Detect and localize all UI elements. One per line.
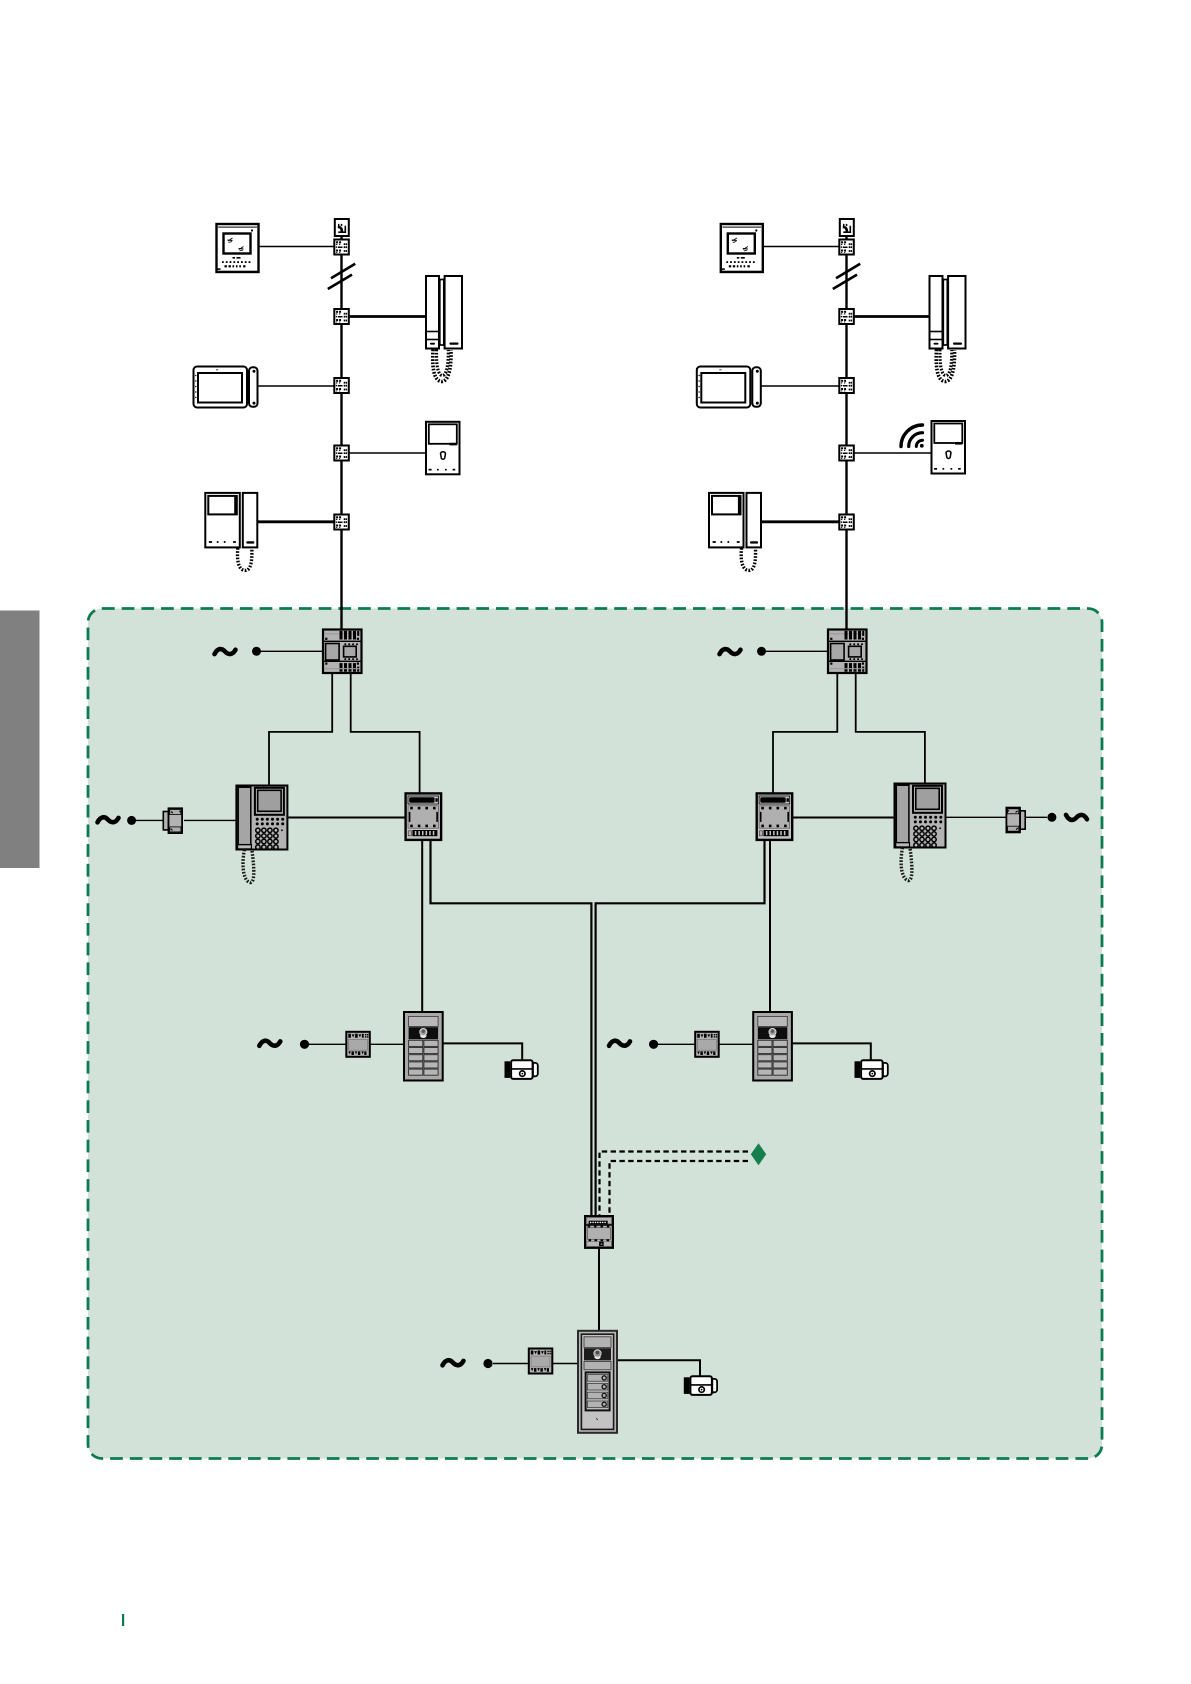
riser terminator R [840, 219, 854, 236]
wire junction to main panel [598, 1247, 600, 1332]
wire left riser [340, 234, 342, 631]
wire entrance panel L to lock L [442, 1043, 522, 1061]
wide monitor L [194, 367, 258, 408]
wire wide monitor R to distributor [762, 385, 841, 387]
riser terminator L [335, 219, 349, 236]
entrance panel R [753, 1012, 792, 1081]
floor distributor L5 [334, 515, 349, 530]
wire psu small R to entrance panel R [718, 1043, 754, 1045]
option diamond [751, 1143, 766, 1165]
section tab [0, 611, 40, 869]
mains symbol entrance L [259, 1041, 280, 1046]
small monitor R [932, 421, 966, 474]
floor distributor L3 [334, 378, 349, 393]
wire wide monitor L to distributor [257, 385, 335, 387]
floor distributor R4 [839, 446, 854, 461]
wire switchboard L to relay L [287, 817, 406, 819]
wire small monitor L to distributor [348, 452, 427, 454]
node switchboard L [127, 816, 136, 825]
wire psu small bottom to main panel [552, 1363, 580, 1365]
junction box [585, 1216, 613, 1248]
transformer entrance R [695, 1032, 719, 1057]
relay distributor R [757, 793, 793, 840]
branch tee L [163, 808, 182, 833]
video monitor L1 [217, 224, 259, 272]
floor distributor R3 [839, 378, 854, 393]
video monitor R1 [721, 224, 763, 272]
wide monitor R [697, 367, 761, 408]
wire dashed option lower [610, 1161, 749, 1217]
wire right riser [845, 234, 847, 631]
mains symbol entrance R [609, 1041, 630, 1046]
wifi symbol [901, 425, 924, 448]
wire monitor R1 to distributor [762, 246, 841, 248]
wire dashed option upper [600, 1152, 749, 1218]
monitor with handset R [709, 493, 761, 571]
riser power supply L [323, 630, 362, 674]
transformer main panel [529, 1349, 553, 1374]
wire mains to PSU right [764, 650, 829, 652]
door lock main [684, 1376, 717, 1395]
floor distributor R2 [839, 309, 854, 324]
porter switchboard L [236, 786, 287, 883]
wire mains to psu small L [309, 1043, 347, 1045]
transformer entrance L [346, 1032, 370, 1057]
wire entrance panel R to lock R [791, 1043, 871, 1061]
floor distributor L2 [334, 309, 349, 324]
wire monitor-handset R to distributor [762, 520, 841, 523]
wire phone L to distributor [348, 315, 427, 318]
intercom phone R [930, 276, 966, 382]
wire PSU left out2 to relay [351, 672, 420, 794]
floor distributor R5 [839, 515, 854, 530]
riser zone shaded area [88, 609, 1102, 1459]
wire PSU left out1 to switchboard [269, 672, 332, 786]
riser break R [833, 264, 860, 289]
wire tee left to switchboard [184, 819, 237, 821]
wire PSU right out1 to relay [773, 672, 837, 794]
wire monitor-handset L to distributor [257, 520, 335, 523]
intercom phone L [426, 276, 462, 382]
mains symbol PSU R [720, 649, 741, 654]
branch tee R [1006, 808, 1025, 833]
node entrance L [300, 1040, 309, 1049]
wire mains to tee left [134, 819, 164, 821]
relay distributor L [406, 793, 442, 840]
wire relay R to entrance panel R [769, 839, 771, 1013]
riser power supply R [828, 630, 867, 674]
entrance panel L [404, 1012, 443, 1081]
floor distributor R1 [839, 240, 854, 255]
main entrance panel [578, 1331, 617, 1433]
monitor with handset L [205, 493, 257, 571]
floor distributor L4 [334, 446, 349, 461]
wire relay L to trunk [431, 839, 592, 1217]
node PSU L [252, 647, 261, 656]
node main panel [483, 1359, 492, 1368]
mains symbol PSU L [215, 649, 236, 654]
footer tick [122, 1614, 124, 1626]
wire relay R to trunk [596, 839, 765, 1217]
node entrance R [649, 1040, 658, 1049]
small monitor L [426, 422, 460, 475]
wire monitor L1 to distributor [257, 246, 335, 248]
wire PSU right out2 to switchboard [856, 672, 925, 783]
node PSU R [757, 647, 766, 656]
wire small monitor R to distributor [853, 452, 932, 454]
wire switchboard R to tee R [945, 816, 1007, 818]
wire phone R to distributor [853, 315, 931, 318]
door lock R [855, 1060, 888, 1079]
wire mains to PSU left [259, 650, 324, 652]
wire psu small L to entrance panel L [369, 1043, 405, 1045]
mains symbol switchboard L [98, 817, 119, 822]
bus symbol R [1066, 815, 1087, 820]
porter switchboard R [895, 784, 946, 881]
node switchboard R [1047, 813, 1056, 822]
wire mains to psu small R [658, 1043, 696, 1045]
riser break L [328, 264, 355, 289]
floor distributor L1 [334, 240, 349, 255]
wire relay R to switchboard R [790, 817, 895, 819]
wire relay L to entrance panel L [421, 839, 423, 1013]
door lock L [505, 1060, 538, 1079]
wire main panel to lock bottom [616, 1360, 700, 1377]
mains symbol main panel [443, 1360, 464, 1365]
wire mains to psu small bottom [493, 1363, 530, 1365]
wire tee R to bus point [1026, 816, 1048, 818]
